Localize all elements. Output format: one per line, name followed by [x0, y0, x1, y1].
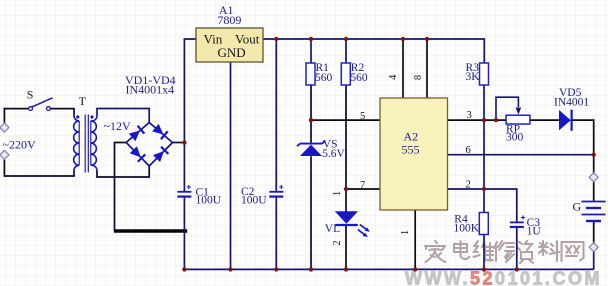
resistor R2 — [341, 63, 350, 85]
svg-text:~220V: ~220V — [3, 138, 36, 152]
diode VD2 top-right — [152, 124, 168, 140]
battery G terminal bottom — [589, 243, 598, 252]
svg-text:T: T — [79, 94, 87, 108]
wire C1 column upper — [183, 143, 185, 192]
svg-text:100U: 100U — [196, 195, 222, 207]
svg-text:1U: 1U — [527, 225, 542, 237]
junction dot pin7 led — [344, 187, 348, 191]
junction dot bridge output — [182, 140, 186, 144]
capacitor C2 — [269, 185, 283, 197]
battery G terminal top — [589, 173, 598, 182]
wire battery bottom lead — [593, 222, 595, 244]
wire pin 8 — [426, 39, 428, 98]
wire C2 column upper — [275, 39, 277, 191]
wire RP wiper loop — [496, 97, 518, 120]
diode VD4 bottom-right — [153, 147, 169, 163]
diode VD1 top-left — [129, 126, 145, 142]
wire RP to VD5 — [530, 119, 559, 121]
capacitor C1 — [177, 185, 191, 197]
wire R1 bottom to zener — [310, 85, 312, 143]
wire plus rail up to A1 Vin — [184, 39, 196, 143]
wire bridge negative output — [115, 143, 127, 232]
watermark chinese text 家电维修资料网 — [425, 241, 584, 263]
junction dots top rail — [274, 37, 429, 41]
wire C2 column lower — [275, 198, 277, 270]
junction dot RP wiper — [494, 118, 498, 122]
svg-text:WWW.520101.COM: WWW.520101.COM — [405, 269, 602, 286]
svg-text:IN4001: IN4001 — [554, 96, 589, 108]
zener diode VS — [297, 141, 325, 156]
wire pin 4 — [402, 39, 404, 98]
svg-text:560: 560 — [350, 72, 368, 84]
resistor R1 — [306, 63, 315, 85]
wire C3 to ground rail — [516, 228, 518, 270]
diode VD5 — [559, 110, 572, 131]
junction dot pin3 R3 — [482, 118, 486, 122]
wire bridge positive output — [173, 142, 185, 144]
terminal 220V top — [0, 123, 9, 132]
potentiometer RP — [506, 108, 530, 125]
LED VL — [335, 211, 370, 237]
battery G plates — [582, 202, 606, 222]
svg-text:8: 8 — [413, 75, 424, 80]
transformer polarity dots — [76, 115, 80, 119]
wire A1 GND column — [230, 62, 232, 269]
switch S — [29, 98, 53, 111]
svg-text:2: 2 — [466, 179, 471, 190]
svg-text:S: S — [27, 87, 34, 101]
svg-text:300: 300 — [506, 131, 524, 143]
svg-text:2: 2 — [332, 240, 343, 245]
wire R2 top — [345, 39, 347, 63]
wire pin 1 — [414, 210, 416, 269]
wire LED to ground rail — [345, 225, 347, 269]
wire battery top lead — [593, 181, 595, 201]
wire 9V top rail from A1 Vout — [263, 39, 484, 63]
svg-text:5.6V: 5.6V — [322, 148, 345, 160]
svg-text:7809: 7809 — [217, 13, 241, 27]
wire primary bottom loop — [4, 158, 74, 176]
wire secondary bottom to bridge bottom — [97, 166, 149, 177]
wire pin 5 — [311, 119, 380, 121]
wire bottom ground rail — [184, 268, 593, 270]
wire secondary top to bridge top — [97, 109, 149, 123]
wire R3 R4 column — [483, 85, 485, 213]
regulator A1 box — [196, 28, 263, 62]
transformer T secondary winding — [91, 116, 97, 171]
resistor R4 — [479, 213, 488, 235]
svg-text:VL: VL — [325, 223, 340, 235]
wire pin 2 to C3 — [448, 189, 517, 222]
junction dot pin6 battery rail — [592, 153, 596, 157]
svg-text:1: 1 — [332, 191, 343, 196]
diode VD3 bottom-left — [130, 146, 146, 162]
wire pin 6 to battery rail — [448, 154, 594, 156]
terminal 220V bottom — [0, 150, 9, 159]
capacitor C3 — [510, 216, 525, 228]
wire thick ground jumper — [114, 229, 187, 232]
wire battery to ground rail — [593, 251, 595, 270]
svg-text:100K: 100K — [454, 223, 480, 235]
svg-text:6: 6 — [466, 145, 471, 156]
svg-text:4: 4 — [388, 74, 399, 80]
resistor R3 — [480, 63, 489, 85]
svg-text:555: 555 — [402, 143, 420, 157]
junction dot pin5 zener — [309, 118, 313, 122]
svg-text:7: 7 — [360, 180, 365, 191]
wire pin 3 to RP — [448, 119, 507, 121]
transformer core — [85, 115, 88, 173]
wire pin 7 — [346, 188, 380, 190]
svg-text:~12V: ~12V — [104, 119, 131, 133]
svg-text:3: 3 — [467, 110, 472, 121]
wire 220V top terminal riser — [4, 109, 28, 125]
bridge rectifier diamond — [126, 123, 172, 167]
wire R1 top — [310, 39, 312, 63]
wire switch to transformer primary — [50, 109, 74, 116]
svg-text:5: 5 — [360, 111, 365, 122]
wire R4 bottom — [483, 235, 485, 270]
junction dot pin2 R4 — [482, 187, 486, 191]
svg-text:GND: GND — [218, 45, 246, 60]
wire VD5 cathode to battery — [572, 120, 594, 174]
svg-text:100U: 100U — [241, 194, 267, 206]
svg-text:1: 1 — [400, 230, 411, 235]
junction dots bottom rail — [182, 267, 519, 271]
svg-text:G: G — [573, 199, 582, 213]
svg-text:IN4001x4: IN4001x4 — [126, 82, 175, 96]
transformer T primary winding — [74, 116, 80, 171]
svg-text:3K: 3K — [466, 71, 481, 83]
svg-text:560: 560 — [315, 72, 333, 84]
timer A2 555 box — [380, 98, 448, 210]
wire R2 bottom to LED — [345, 85, 347, 212]
wire zener to ground rail — [310, 156, 312, 269]
wire C1 column lower — [183, 198, 185, 270]
